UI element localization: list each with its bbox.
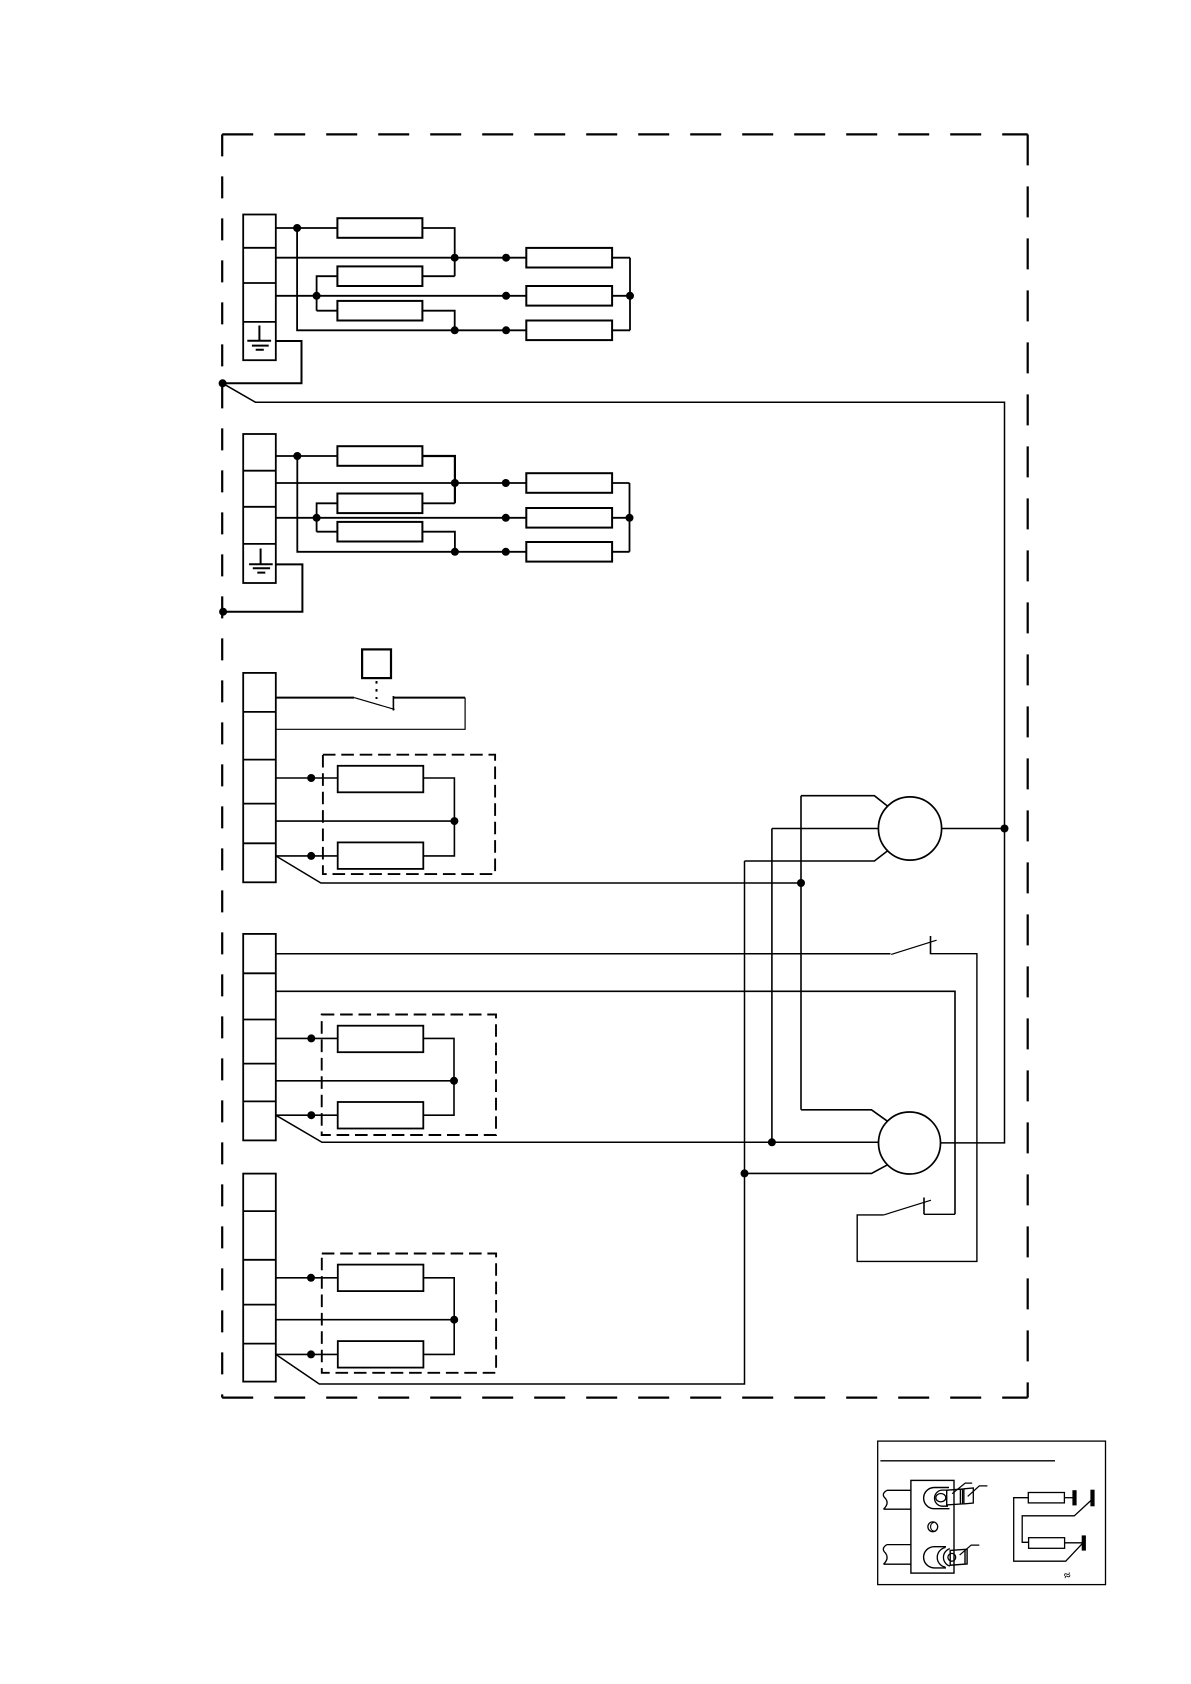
wire J4 pin2 to switch S2 — [276, 991, 955, 1214]
resistor R4 — [526, 248, 612, 268]
node R4b left — [502, 479, 510, 487]
igniter upper terminal tip — [936, 1494, 946, 1502]
dashed heater box H3 — [322, 1254, 496, 1373]
switch S1 contact tick — [930, 936, 932, 954]
node R7 left — [307, 774, 315, 782]
node fan bus junction — [797, 879, 805, 887]
wire J3 pin1 to switch S3 — [276, 697, 354, 699]
node R5b left — [502, 514, 510, 522]
wire R6b right — [612, 551, 629, 553]
wire J4 pin4 row — [276, 1080, 454, 1082]
wire motor M2 bottom lead — [745, 1165, 888, 1174]
resistor R5b — [526, 508, 612, 528]
igniter upper terminal inner arc — [934, 1490, 948, 1506]
wire J3 pin5 to R8 — [276, 855, 338, 857]
switch S2 contact tick — [923, 1198, 925, 1215]
resistor R11 — [338, 1265, 424, 1292]
resistor R1b — [337, 446, 422, 466]
wire R2 left leg — [317, 276, 338, 311]
igniter lower terminal second ring — [937, 1548, 945, 1568]
wire J2 pin3 row to R5b — [276, 517, 527, 519]
wire J5 pin3 to R11 — [276, 1277, 338, 1279]
node R1b/R4b tie — [451, 479, 459, 487]
wire R6 right — [612, 329, 630, 331]
connector J5 — [243, 1174, 276, 1382]
connector J2 — [243, 434, 276, 583]
legend resistor upper — [1028, 1493, 1064, 1503]
wire ground bus to motor commons — [223, 383, 1005, 1143]
node R9/R10 tie — [450, 1077, 458, 1085]
node R11/R12 tie — [450, 1316, 458, 1324]
wire right tie bus R4-R6 — [629, 258, 631, 331]
node R6 left — [502, 326, 510, 334]
chassis dashed enclosure border top — [222, 133, 1027, 135]
igniter lower terminal third ring — [943, 1549, 949, 1567]
wire J4 pin3 to R9 — [276, 1037, 338, 1039]
connector J4 — [243, 934, 276, 1141]
wire J1 pin3 row to R5 — [276, 295, 527, 297]
node R5 left — [502, 292, 510, 300]
wire J2 pin2 row to R4b — [276, 482, 527, 484]
wire motor M2 top lead — [801, 1110, 887, 1121]
node M2 middle tap — [768, 1138, 776, 1146]
electrode bar 1 — [1072, 1490, 1076, 1505]
wire J3 pin4 row — [276, 820, 455, 822]
wire R8 right leg — [423, 821, 454, 856]
wire S1 output — [857, 954, 977, 1262]
wire J4 pin1 to switch S1 — [276, 953, 891, 955]
wire R2 right leg — [422, 275, 454, 277]
node A ground tie 1 — [219, 379, 227, 387]
wire S3 to J3 pin2 loop — [393, 697, 465, 699]
dotted actuator link — [376, 681, 378, 699]
resistor R5 — [526, 286, 612, 306]
ground symbol in J2 pin 4 — [249, 549, 273, 573]
wire R5b right — [612, 517, 629, 519]
node R6b left — [502, 548, 510, 556]
wire J3 pin3 to R7 — [276, 777, 338, 779]
node M2 bottom tap — [741, 1169, 749, 1177]
node M1 right junction — [1001, 825, 1009, 833]
electrode bar 3 — [1082, 1535, 1086, 1550]
chassis dashed enclosure border bottom — [222, 1396, 1027, 1398]
motor M2 — [879, 1112, 941, 1174]
legend box frame — [878, 1441, 1106, 1585]
resistor R10 — [338, 1102, 424, 1129]
resistor R1 — [337, 218, 422, 238]
node R10 left — [307, 1111, 315, 1119]
chassis dashed enclosure border right — [1027, 134, 1029, 1397]
wire J3 common bus to fan node — [276, 856, 801, 883]
wire J2 bottom row to R6b — [297, 456, 526, 552]
igniter upper ferrule — [947, 1489, 963, 1505]
igniter mounting hole inner arc — [931, 1522, 934, 1531]
wire R5 right — [612, 295, 630, 297]
node right tie 2 — [626, 514, 634, 522]
igniter lower ferrule — [950, 1549, 967, 1565]
dashed heater box H2 — [322, 1015, 496, 1136]
igniter mounting hole — [928, 1522, 938, 1532]
wire R10 right leg — [423, 1081, 454, 1115]
wire right tie bus R4b-R6b — [629, 483, 631, 552]
connector J3 — [243, 673, 276, 882]
wire R1b right to vertical — [422, 456, 455, 503]
node R4 left — [502, 254, 510, 262]
switch S3 contact tick — [392, 696, 394, 711]
legend title rule — [880, 1460, 1055, 1462]
wire R7 right leg — [423, 778, 454, 821]
igniter lead wire lower — [883, 1545, 911, 1565]
wire motor M1 middle lead vertical bus — [771, 829, 773, 1143]
node R8 left — [307, 852, 315, 860]
node R3 bottom tie — [451, 326, 459, 334]
wire loop return to J3 pin2 — [276, 698, 465, 730]
wire J2 ground to border — [223, 564, 302, 611]
node R9 left — [307, 1034, 315, 1042]
wire J5 pin5 to R12 — [276, 1353, 338, 1355]
resistor R3b — [337, 522, 422, 542]
igniter mounting plate — [911, 1480, 954, 1573]
wire J4 pin5 to R10 — [276, 1114, 338, 1116]
resistor R2 — [337, 266, 422, 286]
wire J4 common bus to motor M2 — [276, 1115, 879, 1142]
wire R3b left leg — [317, 531, 338, 533]
wire motor M1 right lead — [942, 828, 1005, 830]
leader line 1 — [952, 1483, 972, 1494]
switch S1 blade — [891, 940, 936, 954]
wire R3 right leg — [422, 311, 454, 331]
node J1-1 junction — [293, 224, 301, 232]
wire J2 pin1 to R1b — [276, 455, 338, 457]
wire R11 right leg — [423, 1278, 454, 1320]
switch S2 blade — [884, 1200, 931, 1215]
electrode bar 2 — [1090, 1490, 1094, 1507]
wire R2b left leg — [317, 503, 338, 531]
legend middle wire with gap diagonal — [1022, 1501, 1091, 1543]
resistor R7 — [338, 766, 424, 793]
wire R2b right leg — [422, 502, 455, 504]
igniter lead wire upper — [883, 1490, 911, 1509]
wire R4 right — [612, 257, 630, 259]
connector J1 — [243, 215, 276, 361]
node R2/R3 tap — [313, 292, 321, 300]
node B ground tie 2 — [219, 608, 227, 616]
wire R3 left leg — [317, 310, 338, 312]
wire R12 right leg — [423, 1320, 454, 1355]
igniter upper spade — [964, 1488, 973, 1504]
node R2b/R3b tap — [313, 514, 321, 522]
igniter lower tip circle — [948, 1553, 956, 1561]
resistor R6 — [526, 321, 612, 341]
wire R1 right to vertical — [422, 228, 454, 276]
wire motor M1 top lead — [801, 796, 888, 807]
wire R9 right leg — [423, 1038, 454, 1080]
node J2-1 junction — [293, 452, 301, 460]
resistor R9 — [338, 1026, 424, 1053]
resistor R8 — [338, 842, 424, 869]
ground symbol in J1 pin 4 — [247, 326, 271, 350]
igniter lower terminal boot — [924, 1547, 946, 1568]
thermostat sensor box TH1 — [362, 649, 391, 678]
resistor R12 — [338, 1341, 424, 1368]
legend resistor lower — [1029, 1538, 1065, 1549]
wire motor M1 bottom lead — [745, 851, 888, 861]
leader line 3 — [960, 1545, 980, 1555]
resistor R3 — [337, 301, 422, 321]
dashed heater box H1 — [323, 755, 495, 874]
node R3b bottom tie — [451, 548, 459, 556]
motor M1 — [878, 797, 941, 860]
leader line 2 — [968, 1486, 988, 1497]
node right tie — [626, 292, 634, 300]
legend wire loop left — [1014, 1498, 1082, 1562]
resistor R4b — [526, 473, 612, 493]
igniter upper terminal boot — [924, 1488, 950, 1509]
wire R4b right — [612, 482, 629, 484]
chassis dashed enclosure border left — [221, 134, 223, 1397]
igniter upper terminal slot — [946, 1497, 947, 1499]
node R7/R8 tie — [450, 817, 458, 825]
wire J1 ground to border — [223, 341, 302, 383]
wire J5 pin4 row — [276, 1319, 454, 1321]
node R11 left — [307, 1274, 315, 1282]
wire J1 pin2 row to R4 — [276, 257, 527, 259]
node R12 left — [307, 1350, 315, 1358]
resistor R2b — [337, 494, 422, 514]
wire J1 pin1 to R1 — [276, 227, 338, 229]
wire motor M1 top lead vertical bus — [800, 796, 802, 1110]
switch S3 blade — [354, 698, 395, 710]
node R1/R4 tie — [451, 254, 459, 262]
wire S2 output — [924, 1213, 955, 1215]
legend wire upper resistor to electrode — [1064, 1497, 1073, 1499]
resistor R6b — [526, 542, 612, 562]
wire J1 bottom row to R6 — [297, 228, 526, 330]
wire motor M1 middle lead — [772, 828, 879, 830]
wire R3b right leg — [422, 532, 455, 552]
legend wire lower resistor to electrode — [1065, 1542, 1083, 1544]
svg-text:≈: ≈ — [1062, 1568, 1072, 1583]
wire J5 common bus — [276, 861, 745, 1384]
